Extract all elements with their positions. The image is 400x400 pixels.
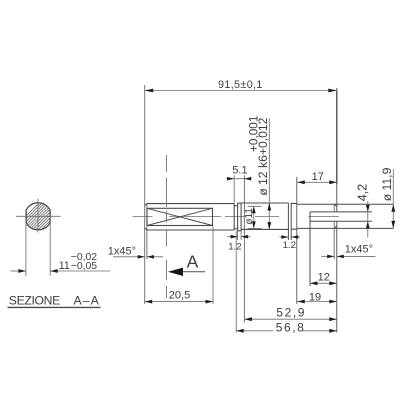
extension line right flat <box>49 224 51 277</box>
knurl box <box>147 208 213 225</box>
left section right edge <box>233 204 235 230</box>
hatching of section <box>9 197 86 233</box>
middle section (ø12 k6) outline <box>241 203 288 229</box>
dimension 12 <box>310 282 337 284</box>
groove 2 second line <box>290 203 292 240</box>
dimension 20,5 <box>145 301 213 303</box>
dimension 1.2 (first groove) <box>227 236 238 238</box>
dimension 1.2 (second groove) <box>280 236 289 238</box>
short collar after groove 2 <box>291 203 297 229</box>
dimension 1x45° right <box>321 255 334 257</box>
svg-text:17: 17 <box>312 171 324 183</box>
svg-text:ø 12 k6+0,012: ø 12 k6+0,012 <box>256 117 270 195</box>
section A-A circle with flats <box>26 203 50 230</box>
section vertical centerline <box>37 199 39 233</box>
section cut line A-A dashes <box>165 155 167 298</box>
right end corner chamfer diagonals <box>334 204 337 228</box>
shaft left end face (also extension for 91.5 and 20.5 dims) <box>144 85 146 304</box>
svg-text:SEZIONE: SEZIONE <box>9 294 60 308</box>
extension line left flat <box>25 224 27 277</box>
svg-text:19: 19 <box>309 292 321 304</box>
dimension ø11,9 <box>392 169 394 228</box>
shaft left section outline <box>145 204 235 230</box>
5.1 left extension above shaft <box>233 175 235 203</box>
ext for 20,5 right <box>212 226 214 304</box>
svg-text:ø11: ø11 <box>244 208 255 225</box>
dimension 19 <box>297 301 337 303</box>
svg-text:20,5: 20,5 <box>169 290 190 302</box>
dimension 52,9 <box>244 318 336 320</box>
svg-text:A: A <box>187 251 199 271</box>
middle section right edge <box>287 203 289 240</box>
dimension ø12 k6 vertical line <box>268 119 270 230</box>
svg-text:4,2: 4,2 <box>356 184 370 202</box>
right end face (long vertical: ext for 91.5 / 12 / 19 / 52.9 / 56.8) <box>336 88 338 333</box>
svg-text:1x45°: 1x45° <box>108 245 136 257</box>
dimension 5.1 <box>227 178 252 180</box>
svg-text:ø 11,9: ø 11,9 <box>380 167 394 201</box>
svg-text:1.2: 1.2 <box>283 240 296 251</box>
svg-text:A–A: A–A <box>74 294 100 308</box>
dimension 11 -0.02/-0.05 line <box>11 270 26 272</box>
svg-text:1x45°: 1x45° <box>345 244 373 256</box>
dimension 17 <box>297 181 337 183</box>
flat on right end: two horizontal lines <box>310 212 372 221</box>
section arrow A <box>170 271 205 273</box>
dimension 91,5±0,1 <box>145 90 337 92</box>
56.8 left extension below shaft <box>235 231 237 333</box>
svg-text:52,9: 52,9 <box>276 306 306 320</box>
flat start vertical / ext for 12 dim <box>309 212 311 286</box>
left end chamfer line <box>146 204 148 260</box>
svg-text:12: 12 <box>318 271 330 283</box>
step edge / ext for 17 and 19 <box>296 177 298 304</box>
main centerline of shaft <box>133 215 340 217</box>
right section bottom edge + extension <box>297 227 394 229</box>
groove right edge line / ext for 5.1 and 52.9 <box>243 175 245 322</box>
svg-text:1.2: 1.2 <box>228 242 241 253</box>
right section (ø11.9) top edge + extension to ø11.9 dim <box>297 203 394 205</box>
svg-text:5.1: 5.1 <box>232 164 247 176</box>
dimension ø11 of groove (ticks, line, arrows) <box>248 206 262 228</box>
underline of SEZIONE A-A <box>8 306 101 308</box>
dimension 56,8 <box>236 330 273 332</box>
svg-text:11: 11 <box>59 260 70 272</box>
dimension 1x45° left <box>113 256 145 258</box>
svg-text:56,8: 56,8 <box>276 320 306 334</box>
knurl X diagonal 2 <box>147 208 213 225</box>
dimension 4,2 <box>367 201 369 238</box>
knurl X diagonal 1 <box>147 208 213 225</box>
svg-text:−0,05: −0,05 <box>71 261 98 272</box>
collar ring in groove (1.2 wide), extension lines below <box>238 203 242 231</box>
section horizontal centerline <box>16 215 61 217</box>
right end chamfer line <box>333 204 335 259</box>
groove floor lines <box>234 206 237 229</box>
svg-text:91,5±0,1: 91,5±0,1 <box>218 79 263 91</box>
